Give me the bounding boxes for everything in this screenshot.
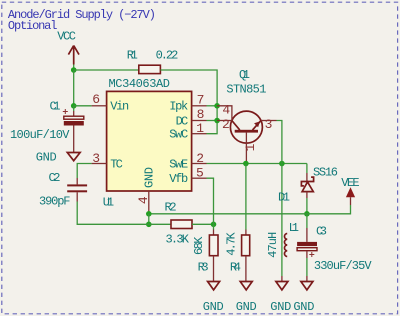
diode D1 SS16 (schottky) bbox=[278, 166, 338, 205]
U1 pin 6 Vin bbox=[92, 92, 130, 114]
wire pin4 column down bbox=[148, 214, 150, 225]
U1 pin 3 TC bbox=[92, 151, 123, 171]
svg-text:Ipk: Ipk bbox=[169, 100, 188, 114]
junction pin8 node bbox=[214, 118, 220, 124]
svg-text:R2: R2 bbox=[165, 200, 177, 214]
ground below R4 bbox=[236, 282, 257, 315]
svg-text:VCC: VCC bbox=[57, 29, 76, 43]
svg-text:GND: GND bbox=[270, 300, 291, 314]
wire Vin node down to C1 bbox=[73, 106, 75, 111]
wire R2 to Vfb node bbox=[192, 223, 214, 225]
svg-text:GND: GND bbox=[36, 150, 57, 164]
svg-text:U1: U1 bbox=[103, 196, 114, 210]
wire R1 to SwC column bbox=[160, 70, 217, 134]
svg-text:SwC: SwC bbox=[169, 128, 188, 142]
svg-text:330uF/35V: 330uF/35V bbox=[314, 259, 372, 273]
svg-text:GND: GND bbox=[203, 300, 224, 314]
U1 pin 4 GND bbox=[136, 167, 157, 214]
svg-text:68K: 68K bbox=[192, 236, 206, 255]
wire Q1 pin3 over and down through L1 column bbox=[277, 121, 282, 277]
ground below C3 bbox=[293, 276, 314, 314]
U1 pin 5 Vfb bbox=[169, 165, 206, 186]
svg-text:DC: DC bbox=[176, 114, 189, 128]
svg-text:R4: R4 bbox=[230, 260, 241, 274]
svg-text:8: 8 bbox=[197, 107, 205, 122]
resistor R4 bbox=[225, 230, 250, 282]
wire SwE row from pin2 to D1 corner bbox=[207, 163, 307, 165]
wire VEE rail down to C3 bbox=[306, 214, 308, 228]
U1 pin 7 Ipk bbox=[169, 93, 206, 114]
svg-text:47uH: 47uH bbox=[266, 232, 280, 258]
junction pin4 R2 node bbox=[146, 222, 152, 228]
wire GND rail from U1 pin4 to D1 junction bbox=[149, 213, 307, 215]
svg-text:SwE: SwE bbox=[169, 157, 188, 171]
wire pin7 to column bbox=[207, 105, 218, 107]
wire Vin node to pin 6 bbox=[74, 105, 92, 107]
wire pin4 node to R2 bbox=[149, 223, 171, 225]
IC U1 MC34063AD body bbox=[103, 77, 192, 210]
ground below R3 bbox=[203, 282, 224, 315]
resistor R2 bbox=[165, 200, 193, 246]
svg-text:4: 4 bbox=[222, 103, 230, 118]
svg-text:3: 3 bbox=[92, 151, 100, 166]
wire C3 to ground bbox=[306, 258, 308, 276]
svg-text:Optional: Optional bbox=[8, 19, 58, 33]
junction VCC node bbox=[71, 67, 77, 73]
power symbol VCC bbox=[57, 29, 79, 64]
junction Q1 emitter node bbox=[243, 161, 249, 167]
capacitor C1 bbox=[10, 100, 84, 153]
svg-text:6: 6 bbox=[92, 92, 100, 107]
junction Vfb divider node bbox=[211, 222, 217, 228]
svg-text:2: 2 bbox=[222, 117, 230, 132]
svg-text:C1: C1 bbox=[50, 100, 61, 114]
ground below C1 bbox=[36, 150, 80, 164]
svg-text:TC: TC bbox=[110, 157, 123, 171]
svg-text:390pF: 390pF bbox=[39, 195, 71, 209]
svg-text:R3: R3 bbox=[198, 260, 209, 274]
svg-text:R1: R1 bbox=[127, 49, 138, 63]
U1 pin 2 SwE bbox=[169, 151, 206, 171]
wire VEE rail to VEE symbol bbox=[307, 205, 351, 214]
wire VCC stem to junction bbox=[73, 65, 75, 71]
junction pin7 node bbox=[214, 103, 220, 109]
svg-text:MC34063AD: MC34063AD bbox=[109, 77, 171, 91]
svg-text:C2: C2 bbox=[49, 171, 61, 185]
U1 pin 1 SwC bbox=[169, 121, 206, 141]
svg-text:Q1: Q1 bbox=[239, 68, 250, 82]
wire Q1 emitter node down to R4 bbox=[245, 164, 247, 230]
svg-text:0.22: 0.22 bbox=[156, 49, 179, 63]
svg-text:GND: GND bbox=[143, 167, 157, 188]
wire pin8 to column bbox=[207, 120, 218, 122]
svg-text:Vin: Vin bbox=[110, 100, 129, 114]
capacitor C2 bbox=[39, 171, 87, 208]
svg-text:SS16: SS16 bbox=[313, 166, 338, 180]
wire C2 bottom to pin4 node bbox=[77, 202, 149, 225]
power symbol VEE bbox=[341, 176, 359, 205]
junction D1 cathode / VEE rail bbox=[304, 211, 310, 217]
svg-text:4: 4 bbox=[136, 196, 151, 204]
svg-text:4.7K: 4.7K bbox=[225, 232, 239, 256]
svg-text:GND: GND bbox=[236, 300, 257, 314]
resistor R3 bbox=[192, 230, 218, 282]
svg-text:5: 5 bbox=[196, 165, 204, 180]
wire VCC junction down to Vin node bbox=[73, 70, 75, 106]
wire TC pin to C2 bbox=[77, 164, 91, 179]
svg-text:1: 1 bbox=[243, 143, 258, 151]
capacitor C3 bbox=[297, 224, 372, 273]
svg-text:Vfb: Vfb bbox=[169, 172, 188, 186]
svg-text:3: 3 bbox=[265, 117, 273, 132]
resistor R1 bbox=[127, 49, 179, 74]
text note: title bbox=[8, 8, 156, 33]
svg-text:GND: GND bbox=[293, 300, 314, 314]
junction pin4 rail node bbox=[146, 211, 152, 217]
svg-text:3.3K: 3.3K bbox=[166, 232, 190, 246]
svg-text:L1: L1 bbox=[289, 221, 299, 235]
wire SwE corner down to D1 bbox=[306, 164, 308, 174]
svg-text:100uF/10V: 100uF/10V bbox=[10, 128, 70, 142]
junction Vin node bbox=[71, 103, 77, 109]
wire VCC to R1 bbox=[74, 69, 139, 71]
wire Vfb pin5 down to divider node bbox=[207, 178, 214, 229]
svg-text:1: 1 bbox=[196, 121, 204, 136]
svg-text:C3: C3 bbox=[316, 224, 327, 238]
svg-text:D1: D1 bbox=[278, 191, 290, 205]
wire D1 to VEE rail junction bbox=[306, 198, 308, 214]
svg-text:STN851: STN851 bbox=[226, 83, 266, 97]
ground below L1 bbox=[270, 276, 291, 314]
transistor Q1 bbox=[217, 68, 276, 163]
junction Q1 collector column node bbox=[279, 161, 285, 167]
U1 pin 8 DC bbox=[176, 107, 207, 128]
svg-text:2: 2 bbox=[196, 151, 204, 166]
svg-text:7: 7 bbox=[197, 93, 205, 108]
inductor L1 bbox=[266, 221, 299, 258]
